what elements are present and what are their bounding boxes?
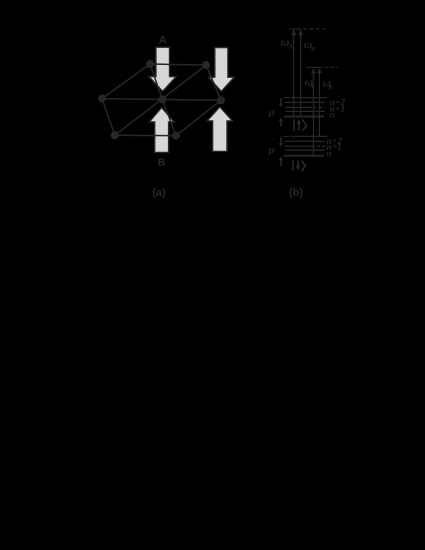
- arrowhead omegaB tall: [298, 29, 303, 35]
- arrowhead omegaA tall: [291, 29, 296, 35]
- label n+1 upper: [330, 105, 344, 111]
- photon arrow shaft omegaB tall: [300, 35, 302, 117]
- level line n upper: [285, 110, 325, 112]
- level line top stub upper: [284, 97, 290, 99]
- wire hexagon edge MR-BC: [176, 100, 221, 135]
- ket down arrowhead: [296, 166, 301, 171]
- mu down arrow shaft lower: [280, 137, 282, 143]
- ket up arrow shaft: [298, 122, 300, 131]
- wire hexagon edge BC-BL: [115, 134, 176, 136]
- level line main upper thick: [284, 116, 325, 118]
- mu down arrowhead lower: [279, 143, 283, 147]
- label mu upper: [268, 110, 274, 117]
- node MR lattice dot: [217, 96, 225, 104]
- level line n+1 lower: [285, 145, 315, 147]
- ket up bar: [293, 119, 295, 131]
- virtual level dashed top: [290, 28, 302, 30]
- wire hexagon edge TR-MR: [206, 65, 221, 100]
- ket up state label: [294, 119, 307, 131]
- level line top lower: [292, 135, 328, 137]
- level line n+1 upper dashed extension: [314, 106, 325, 108]
- wire hexagon edge TL-TR: [150, 64, 206, 65]
- label omega_A short: [305, 80, 313, 86]
- label n lower: [327, 152, 332, 156]
- label B: [158, 159, 164, 166]
- mu down arrow shaft upper: [280, 98, 282, 104]
- arrowhead omegaA short: [311, 68, 316, 74]
- node BC lattice dot: [172, 132, 180, 140]
- wire spoke TR-BL: [115, 65, 206, 135]
- level line n+2 upper: [285, 101, 325, 103]
- level line top upper: [292, 97, 328, 99]
- label omega_B short: [323, 81, 331, 87]
- photon arrow shaft omegaB short: [318, 73, 320, 136]
- label A: [159, 36, 166, 44]
- wire hexagon edge ML-TL: [102, 64, 150, 99]
- virtual level dashed mid: [306, 66, 311, 68]
- spin arrow up right (sublattice B): [207, 107, 232, 152]
- node ML lattice dot: [98, 95, 106, 103]
- level line n lower: [285, 149, 325, 151]
- node TL lattice dot: [146, 60, 154, 68]
- label n+2 lower: [327, 138, 342, 144]
- mu up arrowhead lower: [279, 156, 283, 160]
- photon arrow shaft omegaA tall: [293, 35, 295, 117]
- arrowhead omegaB short: [317, 68, 322, 74]
- node BL lattice dot: [111, 131, 119, 139]
- level line n+1 upper: [285, 106, 312, 108]
- level line main lower thick: [284, 155, 325, 157]
- ket down arrow shaft: [297, 160, 299, 168]
- label omega_A tall: [281, 40, 289, 46]
- node TR lattice dot: [202, 61, 210, 69]
- level line n+1 lower dashed extension: [317, 145, 326, 147]
- lower manifold levels (spin down): [284, 136, 328, 155]
- label n+1 lower: [327, 144, 341, 150]
- mu down arrowhead upper: [279, 104, 283, 108]
- ket down angle bracket: [302, 161, 306, 172]
- level line n+2 lower: [285, 140, 325, 142]
- spin arrow down right (sublattice A): [208, 48, 234, 92]
- mu dimension arrows lower: [280, 137, 282, 166]
- label mu lower: [268, 148, 274, 155]
- level line top stub lower: [284, 135, 290, 137]
- ket up arrowhead: [297, 119, 302, 124]
- mu up arrow shaft lower: [280, 160, 282, 166]
- spin arrow down center (sublattice A): [149, 47, 176, 91]
- node C lattice dot: [158, 95, 166, 103]
- wire hexagon edge BL-ML: [102, 99, 115, 136]
- upper manifold levels (spin up): [284, 98, 328, 117]
- label omega_B tall: [304, 43, 312, 49]
- mu dimension arrows upper: [280, 98, 282, 126]
- ket down bar: [292, 160, 294, 170]
- ket down state label: [293, 160, 305, 171]
- caption (a): [153, 188, 165, 198]
- wire spoke ML-MR: [102, 99, 221, 101]
- mu up arrowhead upper: [279, 117, 283, 121]
- label n+2 upper: [330, 99, 345, 105]
- photon arrow shaft omegaA short: [312, 73, 314, 156]
- wire spoke TL-BC: [150, 64, 176, 136]
- spin arrow up center (sublattice B): [149, 107, 174, 152]
- mu up arrow shaft upper: [280, 121, 282, 126]
- label n upper: [330, 113, 335, 117]
- caption (b): [290, 188, 303, 198]
- ket up angle bracket: [302, 119, 307, 131]
